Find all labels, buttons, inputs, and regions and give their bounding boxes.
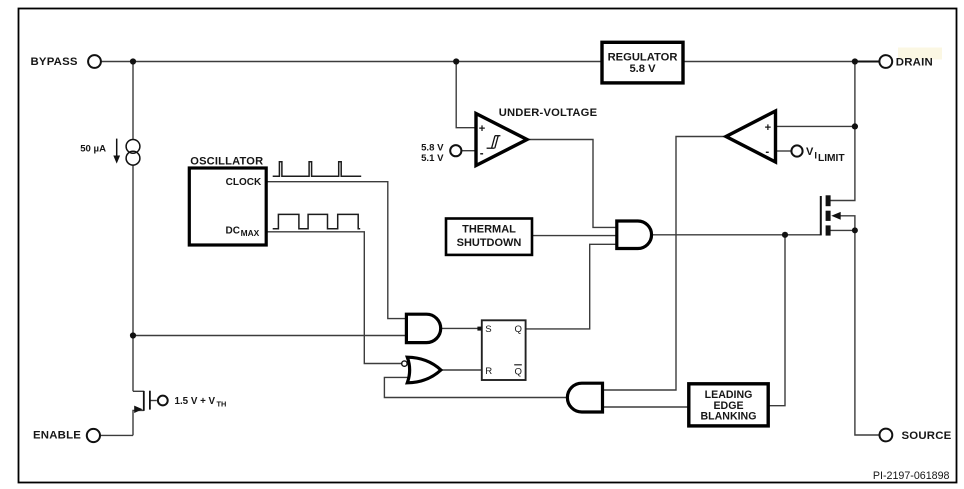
svg-text:50 µA: 50 µA [80, 143, 106, 154]
svg-text:-: - [480, 148, 484, 160]
svg-text:UNDER-VOLTAGE: UNDER-VOLTAGE [499, 107, 598, 119]
svg-text:OSCILLATOR: OSCILLATOR [190, 155, 263, 167]
svg-text:DC: DC [226, 226, 240, 237]
svg-text:+: + [479, 123, 486, 135]
svg-text:Q: Q [515, 367, 522, 378]
svg-text:REGULATOR: REGULATOR [608, 52, 678, 64]
svg-text:I: I [814, 150, 817, 161]
svg-text:LIMIT: LIMIT [818, 153, 845, 164]
svg-text:BLANKING: BLANKING [701, 410, 757, 422]
svg-text:1.5 V + V: 1.5 V + V [175, 396, 216, 407]
svg-text:V: V [806, 146, 814, 158]
svg-text:THERMAL: THERMAL [462, 224, 516, 236]
svg-text:SHUTDOWN: SHUTDOWN [457, 237, 522, 249]
svg-text:CLOCK: CLOCK [226, 177, 262, 188]
svg-text:5.8 V: 5.8 V [421, 143, 444, 154]
svg-text:ENABLE: ENABLE [33, 429, 81, 441]
svg-text:-: - [765, 147, 769, 159]
svg-text:SOURCE: SOURCE [902, 430, 952, 442]
svg-text:Q: Q [515, 324, 522, 335]
svg-text:DRAIN: DRAIN [896, 57, 933, 69]
svg-text:TH: TH [217, 400, 227, 409]
svg-text:+: + [765, 122, 772, 134]
svg-text:BYPASS: BYPASS [31, 56, 78, 68]
svg-text:5.1 V: 5.1 V [421, 153, 444, 164]
svg-text:R: R [485, 366, 492, 377]
svg-text:PI-2197-061898: PI-2197-061898 [873, 470, 950, 482]
svg-text:S: S [485, 324, 491, 335]
svg-text:MAX: MAX [241, 228, 260, 238]
svg-text:5.8 V: 5.8 V [629, 63, 656, 75]
